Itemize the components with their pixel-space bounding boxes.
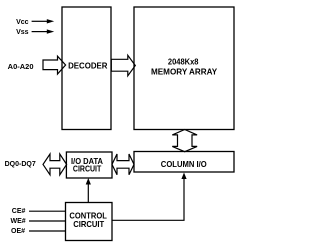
- svg-text:DQ0-DQ7: DQ0-DQ7: [5, 161, 36, 168]
- block DECODER: [62, 7, 111, 130]
- svg-text:Vss: Vss: [16, 29, 29, 36]
- wire CE#: [29, 210, 66, 212]
- svg-text:2048Kx8: 2048Kx8: [168, 57, 199, 67]
- bus arrow I/O DATA CIRCUIT to COLUMN I/O (bidirectional): [112, 154, 134, 175]
- wire Vss arrow: [32, 29, 55, 33]
- wire CONTROL CIRCUIT to COLUMN I/O: [112, 173, 187, 221]
- wire OE#: [29, 230, 66, 232]
- wire Vcc arrow: [32, 19, 55, 23]
- svg-text:CIRCUIT: CIRCUIT: [73, 164, 101, 174]
- wire WE#: [29, 220, 66, 222]
- wire CONTROL CIRCUIT to I/O DATA CIRCUIT: [86, 178, 91, 203]
- block COLUMN I/O: [134, 152, 234, 173]
- svg-text:A0-A20: A0-A20: [8, 64, 34, 71]
- svg-text:Vcc: Vcc: [16, 19, 29, 26]
- svg-text:MEMORY ARRAY: MEMORY ARRAY: [151, 67, 218, 77]
- block CONTROL CIRCUIT: [66, 203, 113, 241]
- bus arrow DECODER to MEMORY ARRAY: [111, 55, 135, 76]
- block MEMORY ARRAY 2048Kx8: [134, 7, 234, 130]
- block I/O DATA CIRCUIT: [66, 152, 112, 178]
- svg-text:CE#: CE#: [12, 208, 26, 215]
- bus arrow DQ0-DQ7 to I/O DATA CIRCUIT (bidirectional): [43, 154, 67, 175]
- svg-text:OE#: OE#: [11, 228, 25, 235]
- svg-text:DECODER: DECODER: [68, 61, 107, 71]
- svg-text:COLUMN I/O: COLUMN I/O: [161, 159, 207, 169]
- svg-text:CIRCUIT: CIRCUIT: [73, 219, 104, 229]
- svg-text:WE#: WE#: [11, 218, 26, 225]
- bus arrow MEMORY ARRAY to COLUMN I/O (bidirectional): [172, 130, 197, 152]
- bus arrow A0-A20 into DECODER: [43, 56, 66, 74]
